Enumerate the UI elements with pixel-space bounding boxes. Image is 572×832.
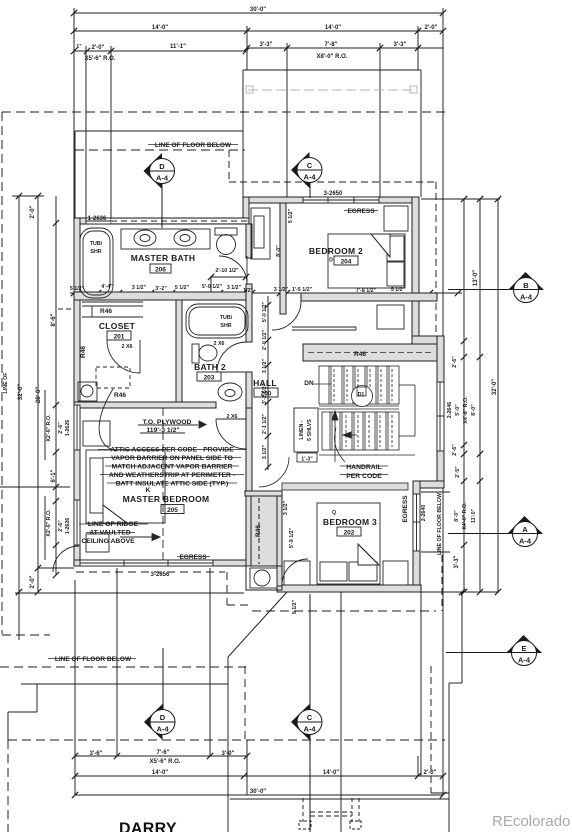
strike egress master bedroom xyxy=(177,556,210,558)
stair lower treads xyxy=(329,412,331,450)
svg-text:BEDROOM 3: BEDROOM 3 xyxy=(323,517,377,527)
svg-text:A: A xyxy=(522,525,528,534)
linen closet bedroom3 xyxy=(294,408,318,452)
svg-text:206: 206 xyxy=(155,267,166,274)
strike line of floor below bottom xyxy=(48,658,136,660)
strike handrail note xyxy=(340,465,388,467)
svg-text:1-2626: 1-2626 xyxy=(65,518,71,535)
dashed right of bedroom2 xyxy=(435,182,437,341)
stair upper rail dashes xyxy=(333,369,335,401)
porch dashed posts xyxy=(302,798,304,822)
svg-text:LINE OF RIDGE: LINE OF RIDGE xyxy=(88,521,139,528)
wall jog stair/bedroom3 xyxy=(413,481,444,488)
wall R46 stair band xyxy=(303,344,437,361)
bottom boundary line xyxy=(230,798,449,800)
line of floor below dashed inner top xyxy=(75,149,245,151)
room number 203 xyxy=(197,372,221,381)
stair lower rail dashes xyxy=(334,415,336,447)
bed3 pillow fold xyxy=(358,544,379,565)
extension lines top xyxy=(73,8,75,218)
svg-text:3'-6": 3'-6" xyxy=(90,751,103,757)
svg-text:11'-1": 11'-1" xyxy=(170,44,186,50)
svg-text:5'-9 1/2": 5'-9 1/2" xyxy=(289,527,295,548)
svg-text:4'-4": 4'-4" xyxy=(101,284,113,290)
svg-text:202: 202 xyxy=(344,530,355,537)
svg-text:3'-3": 3'-3" xyxy=(394,42,407,48)
window 2626 left upper xyxy=(74,405,80,450)
window 2636 master bath top xyxy=(86,218,111,224)
svg-text:C: C xyxy=(307,161,313,170)
door bath2 arc xyxy=(217,342,247,372)
bedroom2 closet shelf xyxy=(377,305,404,329)
svg-text:A-4: A-4 xyxy=(303,725,316,734)
wall bump connector left xyxy=(243,197,249,224)
svg-text:5 1/2": 5 1/2" xyxy=(288,208,294,223)
svg-text:DARRY: DARRY xyxy=(119,821,177,832)
wall bedroom2 right exterior xyxy=(412,197,419,340)
svg-text:2-2646: 2-2646 xyxy=(447,402,453,419)
section marker C bottom leader xyxy=(309,594,311,710)
bed3 footboard rects xyxy=(320,562,347,581)
svg-text:7'-6": 7'-6" xyxy=(157,750,170,756)
stair lower flight box xyxy=(322,412,399,450)
svg-text:2 X6: 2 X6 xyxy=(122,344,133,350)
wall master bath / closet divider xyxy=(74,292,252,300)
svg-text:D1: D1 xyxy=(358,392,365,398)
svg-text:5 1/2": 5 1/2" xyxy=(292,599,298,614)
bed2 headboard rects xyxy=(387,236,404,261)
svg-text:BEDROOM 2: BEDROOM 2 xyxy=(309,246,363,256)
wall bedroom2 bottom xyxy=(301,293,437,301)
svg-text:3'-3": 3'-3" xyxy=(454,555,460,568)
vanity master bath xyxy=(121,229,210,249)
closet rod side xyxy=(91,306,93,317)
door master bedroom arc xyxy=(216,419,246,449)
dimension 2'-0" left top xyxy=(12,195,44,197)
garage left step xyxy=(36,684,38,712)
svg-text:2 X6: 2 X6 xyxy=(214,341,225,347)
wall bedroom3 bottom exterior xyxy=(277,585,421,592)
svg-text:200: 200 xyxy=(261,391,272,398)
dresser bedroom2 xyxy=(254,216,264,248)
svg-text:R46: R46 xyxy=(255,525,262,537)
dashed garage outline xyxy=(76,571,225,573)
ceiling above arrow xyxy=(120,536,160,538)
wall master bedroom bottom exterior xyxy=(74,560,252,566)
room number 204 xyxy=(334,256,358,265)
svg-text:2'-0 1/2": 2'-0 1/2" xyxy=(262,329,268,350)
svg-text:ATTIC ACCESS PER CODE - PROVID: ATTIC ACCESS PER CODE - PROVIDE xyxy=(110,447,234,454)
strike line of floor below top xyxy=(148,144,238,146)
svg-text:30'-0": 30'-0" xyxy=(250,789,266,795)
svg-text:3'-0": 3'-0" xyxy=(222,751,235,757)
dashed jog near bedroom2 xyxy=(228,150,230,182)
svg-text:1-2626: 1-2626 xyxy=(65,420,71,437)
bump-out right wall xyxy=(420,70,422,197)
nightstand bedroom3 right xyxy=(383,561,408,585)
bed bedroom2 xyxy=(328,234,405,288)
svg-text:8'-6": 8'-6" xyxy=(51,313,57,326)
svg-text:3 1/2": 3 1/2" xyxy=(132,285,147,291)
diagonal roof line lower left xyxy=(228,592,287,657)
wall stair right exterior xyxy=(437,336,444,486)
svg-text:2'-6": 2'-6" xyxy=(58,520,64,532)
svg-text:32'-0": 32'-0" xyxy=(18,384,24,400)
svg-text:LINE OF FLOOR BELOW: LINE OF FLOOR BELOW xyxy=(155,142,232,149)
washer laundry xyxy=(250,568,277,588)
wall master bedroom right xyxy=(246,408,252,566)
svg-text:2'-6": 2'-6" xyxy=(452,356,458,368)
interior vertical dim line in hall xyxy=(267,296,269,470)
svg-text:MASTER BEDROOM: MASTER BEDROOM xyxy=(123,494,210,504)
mbed pillow column xyxy=(90,458,103,513)
svg-text:EGRESS: EGRESS xyxy=(347,208,375,215)
svg-text:X4'-0" R.O.: X4'-0" R.O. xyxy=(462,502,468,530)
wall closet bottom xyxy=(74,402,216,408)
svg-text:1-2636: 1-2636 xyxy=(88,216,107,222)
svg-text:HALL: HALL xyxy=(253,378,277,388)
svg-text:LINE OF FLOOR BELOW: LINE OF FLOOR BELOW xyxy=(437,493,443,555)
stair upper treads xyxy=(328,366,330,404)
room number 205 xyxy=(161,505,184,514)
nightstand bedroom3 left xyxy=(284,561,310,585)
strikethrough attic line xyxy=(98,449,247,451)
svg-text:LINE OF: LINE OF xyxy=(3,372,9,394)
svg-text:8'-0": 8'-0" xyxy=(276,245,282,257)
line of floor below dashed lower xyxy=(0,666,246,668)
svg-text:1'-5 1/2": 1'-5 1/2" xyxy=(292,287,313,293)
door master bath arc xyxy=(219,256,247,284)
svg-text:5'-0": 5'-0" xyxy=(455,404,461,416)
dim terminator line right xyxy=(421,591,499,593)
toilet bath2 xyxy=(192,344,199,363)
handrail leader curve xyxy=(334,428,345,462)
svg-text:3 1/2": 3 1/2" xyxy=(262,358,268,373)
svg-text:CEILING ABOVE: CEILING ABOVE xyxy=(81,538,135,545)
stair landing divider xyxy=(319,405,399,407)
window 2640 bedroom3 egress xyxy=(413,494,420,551)
svg-text:MATCH ADJACENT VAPOR BARRIER: MATCH ADJACENT VAPOR BARRIER xyxy=(111,464,232,471)
svg-text:11'-0": 11'-0" xyxy=(471,508,477,523)
svg-text:1": 1" xyxy=(76,44,82,50)
DN leader line xyxy=(314,383,331,385)
svg-text:TUB/: TUB/ xyxy=(90,241,103,247)
bump-out left wall xyxy=(242,70,244,197)
svg-text:X5'-6" R.O.: X5'-6" R.O. xyxy=(85,56,116,62)
section marker D bottom leader xyxy=(162,648,164,710)
dresser master bedroom xyxy=(83,421,110,446)
sink master bath 1 xyxy=(134,230,156,246)
svg-text:X8'-0" R.O.: X8'-0" R.O. xyxy=(317,54,348,60)
svg-text:2'-1 1/2": 2'-1 1/2" xyxy=(262,413,268,434)
svg-text:203: 203 xyxy=(204,375,215,382)
svg-text:5'-0 1/2": 5'-0 1/2" xyxy=(262,301,268,322)
wall left exterior xyxy=(74,218,80,566)
dimension string right: 3'-3" 7'-8" 3'-3" xyxy=(247,47,443,49)
dashed right of bedroom3 xyxy=(441,555,443,611)
door bedroom3 entry arc xyxy=(259,457,289,487)
svg-text:R46: R46 xyxy=(354,351,366,358)
svg-text:X4'-6" R.O.: X4'-6" R.O. xyxy=(463,396,469,424)
svg-text:PER CODE: PER CODE xyxy=(346,473,382,480)
window 2-2646 stair right xyxy=(437,382,444,451)
door circle D1 xyxy=(352,386,373,407)
washer closet xyxy=(78,382,97,401)
wall bedroom2 left xyxy=(280,203,286,314)
svg-text:E: E xyxy=(521,644,526,653)
svg-text:AND WEATHERSTRIP AT PERIMETER: AND WEATHERSTRIP AT PERIMETER - xyxy=(109,472,235,479)
svg-text:EGRESS: EGRESS xyxy=(179,554,207,561)
svg-text:A-4: A-4 xyxy=(156,725,169,734)
section marker D bottom xyxy=(144,704,163,740)
svg-text:DN: DN xyxy=(304,380,314,387)
svg-text:AT VAULTED: AT VAULTED xyxy=(89,530,131,537)
interior dimension string horizontal xyxy=(70,292,462,294)
svg-text:D: D xyxy=(160,713,166,722)
svg-text:REcolorado: REcolorado xyxy=(492,813,570,830)
strike egress bedroom2 xyxy=(344,210,378,212)
dimension 14'-0" 14'-0" 2'-0" bottom xyxy=(75,775,443,777)
svg-text:2'-0": 2'-0" xyxy=(30,575,36,588)
1'-3" box xyxy=(297,453,317,462)
svg-text:2'-6": 2'-6" xyxy=(58,422,64,434)
tub master bath xyxy=(80,228,113,298)
upper bump-out top wall xyxy=(243,69,421,71)
svg-text:5 1/2": 5 1/2" xyxy=(175,285,190,291)
section marker E right leader xyxy=(446,652,512,654)
dimension 3'-6" 7'-6" 3'-0" bottom xyxy=(75,755,247,757)
sink master bath 2 xyxy=(174,230,196,246)
svg-text:5 1/2": 5 1/2" xyxy=(70,286,85,292)
roof outline top xyxy=(75,130,243,132)
svg-text:5 SHLVS: 5 SHLVS xyxy=(307,419,313,441)
section marker C top leader xyxy=(309,183,311,198)
svg-text:3 1/2": 3 1/2" xyxy=(262,444,268,459)
section marker C top xyxy=(291,152,310,188)
handrail small left arrow xyxy=(344,434,357,436)
svg-text:30'-0": 30'-0" xyxy=(250,7,266,13)
gray roof line below xyxy=(248,89,415,91)
bed bedroom3 xyxy=(317,503,380,584)
right inner dim line 2'-6" etc xyxy=(463,199,465,592)
wall bedroom3 left xyxy=(277,496,282,586)
svg-text:8'-0": 8'-0" xyxy=(454,510,460,522)
wall hall left mid xyxy=(246,284,252,342)
toilet master bath xyxy=(215,228,237,235)
closet door leaf xyxy=(139,340,141,373)
svg-text:2 X6: 2 X6 xyxy=(227,414,238,420)
wall stairs / bedroom3 top xyxy=(282,483,408,490)
dimension 14'-0"/14'-0"/2'-0" top xyxy=(74,30,443,32)
svg-text:3-2650: 3-2650 xyxy=(324,191,343,197)
window 3-2650 bedroom2 top xyxy=(303,197,379,203)
wall master bath top exterior xyxy=(74,218,249,224)
dimension 2'-0" left bottom xyxy=(38,567,74,569)
dimension 32'-0" left xyxy=(18,196,20,640)
svg-text:R46: R46 xyxy=(114,392,126,399)
svg-text:3 1/2": 3 1/2" xyxy=(227,285,242,291)
svg-text:3 1/2": 3 1/2" xyxy=(283,500,289,515)
svg-text:T.O. PLYWOOD: T.O. PLYWOOD xyxy=(143,419,192,426)
svg-text:R46: R46 xyxy=(100,308,112,315)
section marker B right leader xyxy=(448,289,514,291)
wall hall bottom xyxy=(245,491,282,496)
svg-text:8'-0": 8'-0" xyxy=(471,404,477,416)
svg-text:D: D xyxy=(329,258,333,264)
attic access dashed panel xyxy=(96,367,130,388)
stair upper flight box xyxy=(319,366,399,404)
svg-text:C: C xyxy=(307,713,313,722)
svg-text:5'-0 1/2": 5'-0 1/2" xyxy=(202,284,223,290)
svg-text:A-4: A-4 xyxy=(156,174,169,183)
svg-text:HANDRAIL: HANDRAIL xyxy=(346,464,382,471)
dashed left bottom vertical xyxy=(7,740,9,832)
svg-text:EGRESS: EGRESS xyxy=(402,495,409,523)
sink bath2 xyxy=(218,383,242,401)
interior dim 2'-10 1/2" xyxy=(210,276,212,293)
wall hall left upper xyxy=(246,224,252,258)
svg-text:LINE OF FLOOR BELOW: LINE OF FLOOR BELOW xyxy=(55,656,132,663)
svg-text:204: 204 xyxy=(341,259,352,266)
svg-text:K: K xyxy=(146,487,151,494)
room number 201 xyxy=(107,331,131,340)
svg-text:7'-8": 7'-8" xyxy=(325,42,338,48)
ridge dashed line xyxy=(162,408,164,560)
section marker A right xyxy=(508,516,543,534)
svg-text:28'-0": 28'-0" xyxy=(36,387,42,403)
svg-text:LINEN -: LINEN - xyxy=(299,420,305,439)
svg-text:2-2640: 2-2640 xyxy=(421,505,427,522)
wall bedroom2 top exterior xyxy=(243,197,419,203)
stair landing rail right xyxy=(399,384,415,386)
svg-text:7'-8 1/2": 7'-8 1/2" xyxy=(356,288,377,294)
nightstand master bedroom xyxy=(86,534,109,552)
svg-text:201: 201 xyxy=(114,334,125,341)
svg-text:TUB/: TUB/ xyxy=(220,315,233,321)
wall closet / bath2 divider xyxy=(176,300,182,402)
section marker C bottom xyxy=(291,704,310,740)
svg-text:MASTER BATH: MASTER BATH xyxy=(131,253,196,263)
svg-text:1/2": 1/2" xyxy=(243,288,253,294)
svg-text:A-4: A-4 xyxy=(520,293,533,302)
strikes attic note xyxy=(103,457,241,459)
section marker D top leader xyxy=(161,183,163,228)
right boundary step lines xyxy=(461,592,463,683)
line of floor below dashed left edge xyxy=(1,112,3,634)
svg-text:VAPOR BARRIER ON PANEL SIDE TO: VAPOR BARRIER ON PANEL SIDE TO xyxy=(111,455,233,462)
svg-text:SHR: SHR xyxy=(220,323,231,329)
svg-text:14'-0": 14'-0" xyxy=(152,770,168,776)
room number 206 xyxy=(150,264,171,273)
room number 200 xyxy=(254,388,278,397)
window 2626 left lower xyxy=(74,500,80,545)
svg-text:2'-10 1/2": 2'-10 1/2" xyxy=(215,268,239,274)
svg-text:14'-0": 14'-0" xyxy=(323,770,339,776)
svg-text:14'-0": 14'-0" xyxy=(152,25,168,31)
svg-text:R46: R46 xyxy=(80,346,87,358)
attic leader curve xyxy=(99,389,116,451)
svg-text:2'-0": 2'-0" xyxy=(424,770,437,776)
section marker A right leader xyxy=(448,533,513,535)
svg-text:CLOSET: CLOSET xyxy=(99,321,136,331)
svg-text:3-2656: 3-2656 xyxy=(151,572,170,578)
dashed bottom long xyxy=(8,739,445,741)
svg-text:2'-6": 2'-6" xyxy=(452,444,458,456)
closet shelf lines xyxy=(82,301,143,303)
svg-text:13'-0": 13'-0" xyxy=(473,270,479,286)
door exterior bottom left arc xyxy=(53,546,79,572)
svg-text:X2'-6" R.O.: X2'-6" R.O. xyxy=(46,414,52,442)
svg-text:3'-2": 3'-2" xyxy=(155,286,167,292)
tub bath2 xyxy=(186,304,248,338)
wall bedroom3 right exterior xyxy=(413,481,420,591)
svg-text:X5'-6" R.O.: X5'-6" R.O. xyxy=(150,759,181,765)
svg-text:BATH 2: BATH 2 xyxy=(194,362,226,372)
svg-text:2'-0": 2'-0" xyxy=(30,205,36,218)
garage side vertical xyxy=(227,657,229,832)
dimension 8'-0"/8'-0" right xyxy=(479,199,481,592)
dimension string left: 1" 2'-0" 11'-1" xyxy=(74,50,246,52)
garage top line xyxy=(21,683,228,685)
svg-text:5 1/2": 5 1/2" xyxy=(391,287,406,293)
line of floor below dashed top xyxy=(2,111,450,113)
to plywood flag xyxy=(199,421,206,428)
svg-text:A-4: A-4 xyxy=(518,656,531,665)
svg-text:3 1/2": 3 1/2" xyxy=(274,287,289,293)
svg-text:2'-0": 2'-0" xyxy=(425,25,438,31)
porch vertical xyxy=(340,592,342,832)
section marker B right xyxy=(509,272,544,290)
section marker D top xyxy=(144,153,163,189)
svg-text:119'-3 1/2": 119'-3 1/2" xyxy=(146,427,179,434)
svg-text:SHR: SHR xyxy=(90,249,101,255)
closet door arc xyxy=(107,340,140,373)
svg-text:6'-1": 6'-1" xyxy=(51,469,57,482)
wall laundry closet xyxy=(246,566,282,590)
handrail arrow up xyxy=(334,416,336,462)
window 3-2656 master bedroom bottom xyxy=(80,560,213,566)
svg-text:205: 205 xyxy=(167,507,178,514)
door bedroom3 arc xyxy=(282,559,308,585)
svg-text:Q: Q xyxy=(332,510,336,516)
svg-text:32'-0": 32'-0" xyxy=(492,379,498,395)
dimension 30'-0" top xyxy=(74,12,443,14)
shower niche top xyxy=(251,208,270,259)
dimension 30'-0" bottom xyxy=(75,794,443,796)
svg-text:BATT INSULATE ATTIC SIDE (TYP.: BATT INSULATE ATTIC SIDE (TYP.) xyxy=(116,481,229,488)
svg-text:1'-3": 1'-3" xyxy=(301,457,313,463)
room number 202 xyxy=(337,527,361,536)
mbed fold xyxy=(103,505,127,523)
svg-text:B: B xyxy=(523,281,529,290)
svg-text:A-4: A-4 xyxy=(519,537,532,546)
svg-text:X2'-6" R.O.: X2'-6" R.O. xyxy=(46,509,52,537)
closet bedroom2 top xyxy=(384,206,408,231)
section marker E right xyxy=(507,635,542,653)
extension lines bottom xyxy=(74,580,76,795)
dimension 32'-0" right xyxy=(497,199,499,592)
svg-text:A-4: A-4 xyxy=(303,173,316,182)
dimension 28'-0" left xyxy=(37,196,39,593)
wall hall left at bath2 xyxy=(246,372,252,408)
wall jog bedroom2/stair xyxy=(412,336,444,344)
wall chase R46 bedroom3 xyxy=(251,496,277,566)
left inner dim line xyxy=(55,196,57,575)
svg-text:2'-5": 2'-5" xyxy=(455,466,461,478)
svg-text:D: D xyxy=(159,162,165,171)
bed master bedroom xyxy=(86,450,165,523)
svg-text:2'-0": 2'-0" xyxy=(92,45,105,51)
